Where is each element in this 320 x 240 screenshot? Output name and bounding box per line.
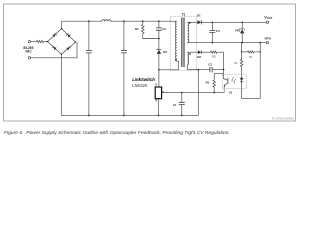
svg-text:C4: C4	[216, 29, 220, 33]
svg-text:D1: D1	[197, 14, 201, 18]
svg-text:VAC: VAC	[25, 49, 32, 53]
svg-text:R3: R3	[135, 27, 139, 31]
svg-text:R2: R2	[234, 61, 238, 65]
svg-text:R4: R4	[249, 55, 253, 59]
svg-text:C: C	[163, 91, 165, 94]
svg-text:U1: U1	[229, 91, 233, 95]
svg-text:C1: C1	[173, 103, 177, 107]
svg-text:C3: C3	[162, 27, 166, 31]
svg-text:D2: D2	[197, 55, 201, 59]
svg-text:T1: T1	[181, 12, 185, 16]
svg-text:LNK520: LNK520	[132, 83, 148, 88]
svg-text:VR1: VR1	[235, 28, 241, 32]
svg-text:D3: D3	[163, 50, 167, 54]
svg-text:R1: R1	[206, 81, 210, 85]
svg-text:LinkSwitch: LinkSwitch	[132, 77, 155, 82]
svg-text:R01: R01	[212, 55, 217, 59]
svg-text:Figure 6. Power Supply Schema: Figure 6. Power Supply Schematic Outline…	[4, 130, 230, 136]
svg-text:PI-3703-030404: PI-3703-030404	[272, 116, 294, 120]
svg-text:C2: C2	[208, 62, 212, 66]
svg-text:D: D	[155, 83, 157, 86]
svg-text:RTN: RTN	[265, 36, 271, 40]
svg-text:S: S	[155, 99, 157, 102]
svg-text:OUT: OUT	[267, 17, 273, 20]
